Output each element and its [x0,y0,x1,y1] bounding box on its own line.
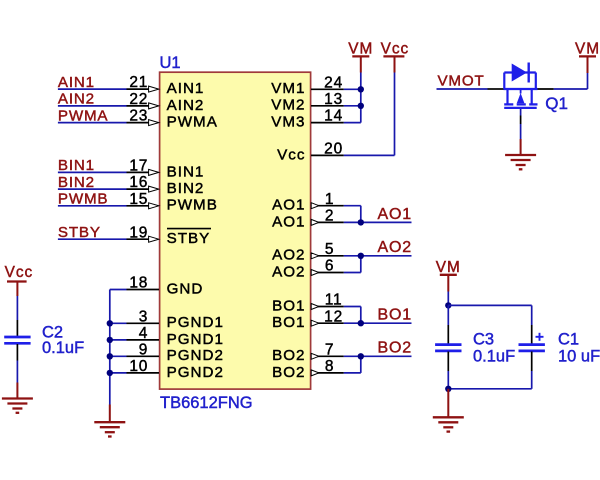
svg-text:7: 7 [325,341,334,358]
svg-text:AO2: AO2 [272,247,305,264]
svg-text:0.1uF: 0.1uF [42,339,84,357]
svg-text:4: 4 [139,325,148,342]
svg-text:16: 16 [129,174,148,191]
svg-text:BO1: BO1 [272,297,305,314]
svg-text:C3: C3 [473,331,494,349]
svg-text:BO1: BO1 [272,314,305,331]
svg-text:22: 22 [129,91,148,108]
svg-text:11: 11 [325,292,343,309]
svg-text:PGND1: PGND1 [167,331,224,348]
svg-text:TB6612FNG: TB6612FNG [160,394,253,412]
svg-text:PGND2: PGND2 [167,347,224,364]
svg-text:PWMA: PWMA [58,107,109,124]
svg-text:VM: VM [348,41,373,58]
svg-text:3: 3 [139,308,148,325]
svg-text:10 uF: 10 uF [558,348,600,366]
svg-text:2: 2 [325,208,334,225]
svg-text:15: 15 [129,191,148,208]
svg-text:Vcc: Vcc [381,41,410,58]
svg-text:VM1: VM1 [271,80,305,97]
svg-text:PGND1: PGND1 [167,314,224,331]
svg-text:17: 17 [129,158,148,175]
svg-text:PWMB: PWMB [167,197,218,214]
svg-text:24: 24 [324,74,343,91]
svg-text:20: 20 [324,141,343,158]
svg-text:5: 5 [325,241,334,258]
svg-text:BIN2: BIN2 [167,180,205,197]
svg-text:PGND2: PGND2 [167,364,224,381]
svg-text:AIN2: AIN2 [58,91,95,108]
svg-text:STBY: STBY [58,224,101,241]
svg-text:14: 14 [324,108,343,125]
svg-text:9: 9 [139,341,148,358]
svg-text:18: 18 [129,275,148,292]
svg-text:BIN1: BIN1 [167,163,205,180]
svg-text:0.1uF: 0.1uF [473,348,515,366]
svg-text:AIN1: AIN1 [58,74,95,91]
svg-text:AO1: AO1 [272,197,305,214]
svg-text:Vcc: Vcc [277,146,305,163]
svg-text:VMOT: VMOT [438,72,485,89]
svg-text:PWMA: PWMA [167,114,218,131]
svg-text:21: 21 [129,74,148,91]
svg-text:10: 10 [129,358,148,375]
svg-text:BIN1: BIN1 [58,157,95,174]
svg-text:U1: U1 [160,54,181,72]
svg-text:STBY: STBY [167,230,211,247]
svg-text:GND: GND [167,280,204,297]
svg-text:Vcc: Vcc [5,264,34,281]
svg-text:BO2: BO2 [378,340,412,357]
svg-text:1: 1 [325,191,334,208]
svg-text:19: 19 [129,224,148,241]
svg-text:VM3: VM3 [271,114,305,131]
svg-text:AO1: AO1 [378,206,412,223]
svg-text:BIN2: BIN2 [58,174,95,191]
svg-text:13: 13 [324,91,343,108]
svg-text:BO2: BO2 [272,364,305,381]
svg-text:AO2: AO2 [272,263,305,280]
svg-text:BO2: BO2 [272,347,305,364]
svg-text:BO1: BO1 [378,307,412,324]
svg-text:6: 6 [325,258,334,275]
svg-text:23: 23 [129,108,148,125]
svg-text:8: 8 [325,358,334,375]
svg-text:12: 12 [324,308,343,325]
svg-text:AIN2: AIN2 [167,97,205,114]
svg-text:Q1: Q1 [545,94,568,113]
svg-text:AO1: AO1 [272,213,305,230]
svg-text:VM: VM [436,259,461,276]
svg-text:C1: C1 [558,331,579,349]
svg-text:VM: VM [575,41,600,58]
svg-text:VM2: VM2 [271,97,305,114]
svg-text:AIN1: AIN1 [167,80,205,97]
svg-text:AO2: AO2 [378,239,412,256]
svg-text:PWMB: PWMB [58,191,108,208]
